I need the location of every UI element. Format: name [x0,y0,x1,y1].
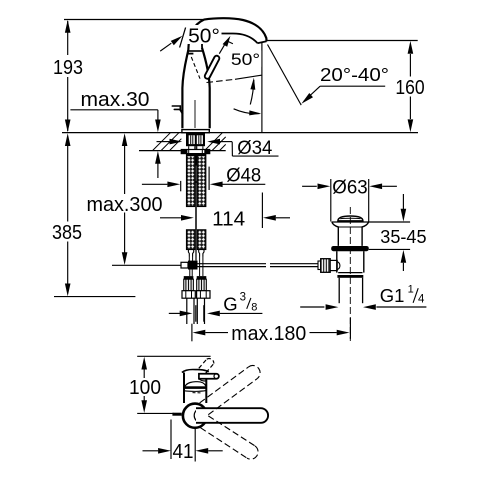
svg-text:max.300: max.300 [87,193,163,216]
svg-text:max.30: max.30 [81,88,150,111]
svg-text:1: 1 [408,284,414,296]
svg-text:160: 160 [395,76,424,99]
svg-text:50°: 50° [231,50,260,69]
svg-text:193: 193 [53,56,83,79]
svg-text:8: 8 [251,302,257,314]
svg-text:4: 4 [418,293,425,305]
svg-text:3: 3 [240,292,246,304]
svg-text:50°: 50° [188,25,220,48]
svg-text:385: 385 [52,221,82,244]
svg-text:Ø63: Ø63 [332,178,367,199]
svg-text:100: 100 [129,376,161,399]
svg-text:G: G [223,293,237,314]
svg-text:max.180: max.180 [231,322,306,345]
svg-text:20°-40°: 20°-40° [320,64,389,85]
svg-text:Ø34: Ø34 [237,138,272,159]
svg-text:41: 41 [173,440,194,463]
svg-text:G1: G1 [380,285,405,306]
svg-text:114: 114 [212,207,245,230]
svg-text:Ø48: Ø48 [226,166,261,187]
svg-text:35-45: 35-45 [380,227,426,247]
